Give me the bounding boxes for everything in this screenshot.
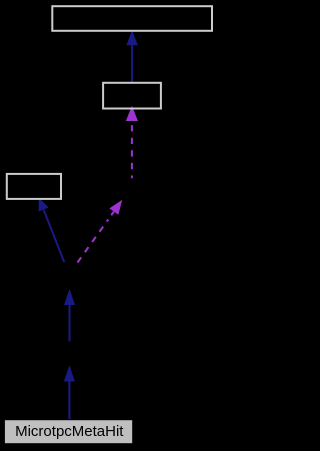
node: top base-class box (empty/dark) [52,6,212,31]
node: left class box (empty/dark) [7,174,61,199]
node: middle class box (empty/dark) [103,83,161,109]
edge: dashed usage arrow hidden node -> middle box [126,106,138,179]
edge: solid inheritance arrow hidden node -> hidden node [64,289,75,342]
edge: dashed usage arrow hidden node -> hidden node [78,200,123,263]
svg-text:MicrotpcMetaHit: MicrotpcMetaHit [15,423,124,440]
edge: solid inheritance arrow MicrotpcMetaHit -> hidden node [64,365,75,419]
edge: solid inheritance arrow middle box -> top box [126,31,138,83]
node: MicrotpcMetaHit (highlighted grey box) [4,420,132,444]
edge: solid inheritance arrow hidden node -> left box [39,198,65,263]
